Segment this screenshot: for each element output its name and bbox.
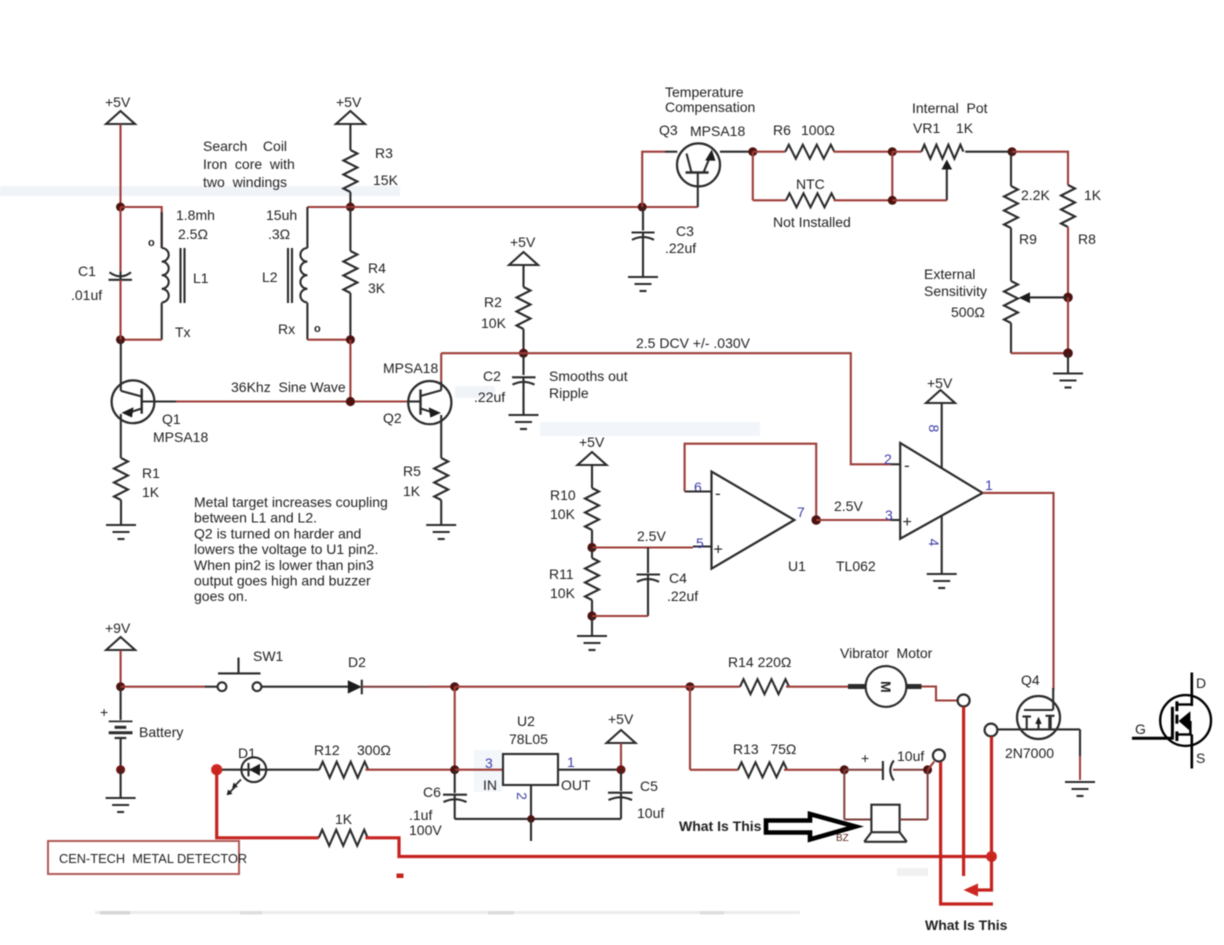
wire pin2 stub below bbox=[530, 819, 532, 841]
svg-text:+: + bbox=[714, 542, 723, 559]
svg-text:C4: C4 bbox=[669, 570, 687, 586]
svg-text:output goes high and buzzer: output goes high and buzzer bbox=[194, 573, 371, 589]
svg-text:100V: 100V bbox=[409, 822, 442, 838]
svg-text:15K: 15K bbox=[373, 172, 399, 188]
svg-text:OUT: OUT bbox=[561, 777, 591, 793]
svg-text:R14 220Ω: R14 220Ω bbox=[728, 654, 791, 670]
svg-text:15uh: 15uh bbox=[266, 207, 297, 223]
power +5V symbol (U2 out) bbox=[607, 711, 636, 770]
wire gate connector to red bus node bbox=[990, 737, 993, 857]
wire Q2 collector up to 2.5V rail bbox=[440, 353, 442, 390]
ground below R5 bbox=[426, 525, 456, 539]
wire Q2 emitter to R5 bbox=[440, 415, 442, 458]
svg-text:+5V: +5V bbox=[510, 234, 536, 250]
power +5V symbol (R3) bbox=[336, 94, 365, 124]
svg-text:S: S bbox=[1196, 750, 1205, 766]
wire feedback loop U1a bbox=[685, 444, 817, 520]
wire SW1 to D2 bbox=[262, 686, 349, 688]
svg-text:TL062: TL062 bbox=[836, 558, 876, 574]
wire node C to L2 top bbox=[307, 206, 350, 208]
node AA (bus corner, bright red) bbox=[986, 851, 997, 862]
svg-text:D2: D2 bbox=[348, 654, 366, 670]
node O (R11 bottom / C4 bottom) bbox=[587, 611, 596, 620]
svg-text:Battery: Battery bbox=[139, 724, 183, 740]
svg-text:36Khz Sine Wave: 36Khz Sine Wave bbox=[231, 379, 346, 395]
ground below U1b pin4 bbox=[927, 574, 957, 588]
svg-text:SW1: SW1 bbox=[253, 648, 284, 664]
svg-text:2.5Ω: 2.5Ω bbox=[178, 226, 208, 242]
transistor Q2 MPSA18 bbox=[383, 360, 451, 426]
svg-text:2.5 DCV +/- .030V: 2.5 DCV +/- .030V bbox=[636, 335, 751, 351]
svg-text:R11: R11 bbox=[549, 566, 574, 582]
node K (VR1 right / R9 top) bbox=[1008, 147, 1017, 156]
svg-text:100Ω: 100Ω bbox=[801, 122, 835, 138]
svg-text:Temperature: Temperature bbox=[665, 84, 744, 100]
svg-text:Compensation: Compensation bbox=[665, 99, 755, 115]
wire motor to connector circle bbox=[922, 687, 958, 701]
svg-text:U1: U1 bbox=[788, 558, 806, 574]
node Y (R13 / buzzer / cap) bbox=[840, 765, 849, 774]
svg-text:2N7000: 2N7000 bbox=[1005, 745, 1054, 761]
svg-text:3: 3 bbox=[885, 507, 893, 523]
core lines of L2 bbox=[288, 248, 292, 303]
svg-text:Q2: Q2 bbox=[383, 410, 402, 426]
svg-text:R6: R6 bbox=[773, 122, 791, 138]
note: metal target text block bbox=[194, 494, 388, 604]
svg-text:D1: D1 bbox=[238, 745, 256, 761]
ground below C2 bbox=[509, 415, 539, 429]
svg-text:lowers the voltage to U1 pin2.: lowers the voltage to U1 pin2. bbox=[194, 541, 378, 557]
svg-text:.22uf: .22uf bbox=[665, 240, 696, 256]
switch SW1 bbox=[121, 648, 284, 691]
wire pin4 to ground bbox=[941, 516, 943, 573]
node U (R12 / C6 / U2 in) bbox=[450, 765, 459, 774]
svg-text:+: + bbox=[903, 514, 912, 531]
wire pin2 lead bbox=[891, 463, 900, 465]
svg-text:L2: L2 bbox=[262, 269, 278, 285]
svg-text:1.8mh: 1.8mh bbox=[176, 207, 215, 223]
svg-text:between L1 and L2.: between L1 and L2. bbox=[194, 510, 317, 526]
wire node O to gnd bbox=[591, 616, 593, 635]
wire C6-U2pin2-C5 bottom rail bbox=[455, 818, 621, 820]
wire 2.5V DCV rail bbox=[441, 353, 891, 464]
svg-text:M: M bbox=[878, 681, 894, 693]
wire U1a out to pin3 bbox=[816, 519, 891, 521]
core lines of L1 bbox=[181, 248, 185, 303]
wire D2 to node S bbox=[362, 686, 430, 688]
capacitor C3 .22uf bbox=[632, 207, 697, 276]
wire +5V to node A bbox=[119, 124, 121, 207]
ground below battery bbox=[106, 798, 136, 812]
svg-text:Search Coil: Search Coil bbox=[203, 138, 287, 154]
node Z (cap right) bbox=[923, 765, 932, 774]
connector circle (10uf) bbox=[928, 750, 945, 770]
svg-text:-: - bbox=[715, 484, 721, 503]
capacitor 10uf (buzzer) bbox=[844, 748, 927, 781]
resistor R10 10K bbox=[550, 465, 599, 548]
note: search coil text bbox=[203, 138, 295, 190]
wire 1K to bottom red bus bbox=[365, 838, 991, 857]
resistor R1 1K bbox=[114, 458, 160, 524]
wire battery to gnd bbox=[120, 770, 122, 797]
capacitor C2 .22uf bbox=[474, 353, 536, 414]
svg-text:+9V: +9V bbox=[105, 620, 131, 636]
node H (Q3 right / R6 left) bbox=[748, 147, 757, 156]
svg-text:U2: U2 bbox=[517, 713, 535, 729]
svg-text:10uf: 10uf bbox=[897, 748, 924, 764]
power +5V symbol (R2) bbox=[509, 234, 538, 265]
resistor R2 10K bbox=[481, 265, 531, 353]
node Q (battery + / switch) bbox=[116, 682, 125, 691]
transistor Q1 MPSA18 bbox=[112, 380, 209, 458]
node V (U2 out / C5) bbox=[617, 765, 626, 774]
svg-text:2.5V: 2.5V bbox=[637, 528, 666, 544]
resistor 1K (bottom) bbox=[319, 811, 368, 846]
node W (pin2 / bottom rail) bbox=[527, 815, 535, 823]
wire +5V to R3 bbox=[349, 124, 351, 150]
svg-text:C2: C2 bbox=[483, 368, 501, 384]
node S (D2 / U2 branch) bbox=[450, 682, 459, 691]
svg-text:3: 3 bbox=[485, 755, 493, 771]
svg-text:R12: R12 bbox=[314, 742, 340, 758]
svg-text:Vibrator Motor: Vibrator Motor bbox=[840, 645, 933, 661]
svg-text:When pin2 is lower than pin3: When pin2 is lower than pin3 bbox=[194, 557, 374, 573]
wire node B down to Q1 collector bbox=[120, 340, 122, 391]
svg-text:Metal target increases couplin: Metal target increases coupling bbox=[194, 494, 388, 510]
op-amp U1b bbox=[884, 425, 993, 547]
svg-text:.22uf: .22uf bbox=[474, 389, 505, 405]
svg-text:C5: C5 bbox=[640, 778, 658, 794]
svg-text:Internal Pot: Internal Pot bbox=[912, 100, 988, 116]
wire node A to L1 top bbox=[121, 207, 162, 248]
vibrator motor bbox=[840, 645, 933, 707]
wire mystery line from motor connector down bbox=[962, 707, 965, 876]
power +5V symbol (left) bbox=[105, 94, 135, 124]
node I (R6 right / VR1 left) bbox=[888, 147, 897, 156]
resistor R3 15K bbox=[343, 145, 398, 207]
resistor R13 75ohm bbox=[690, 687, 844, 778]
svg-text:CEN-TECH METAL DETECTOR: CEN-TECH METAL DETECTOR bbox=[59, 851, 247, 866]
wire L2 bottom to node D bbox=[306, 303, 308, 340]
svg-text:4: 4 bbox=[926, 539, 942, 547]
node X (R14/R13 branch) bbox=[686, 682, 695, 691]
mosfet reference symbol (right margin) bbox=[1132, 673, 1211, 769]
inductor L2 bbox=[262, 248, 307, 302]
svg-text:C1: C1 bbox=[78, 263, 96, 279]
node J (NTC right / wiper junction) bbox=[888, 196, 897, 205]
svg-text:Sensitivity: Sensitivity bbox=[924, 283, 987, 299]
power +9V symbol bbox=[105, 620, 135, 650]
svg-text:7: 7 bbox=[797, 504, 805, 520]
wire D1 dot to 1K resistor (red bus) bbox=[217, 770, 319, 838]
wire U1b output to Q4 drain bbox=[983, 493, 1054, 690]
op-amp U1a bbox=[694, 472, 805, 569]
svg-text:1: 1 bbox=[985, 477, 993, 493]
svg-text:10uf: 10uf bbox=[637, 805, 664, 821]
regulator U2 78L05 bbox=[483, 713, 591, 800]
svg-text:R2: R2 bbox=[484, 294, 502, 310]
buzzer BZ bbox=[836, 770, 928, 844]
transistor Q4 2N7000 bbox=[998, 672, 1080, 761]
capacitor C5 10uf bbox=[608, 770, 664, 821]
node F (C3 junction) bbox=[638, 203, 647, 212]
wire mystery line from 10uf connector bbox=[941, 762, 993, 904]
block arrow pointing at buzzer bbox=[766, 814, 856, 840]
note: temperature compensation bbox=[665, 84, 755, 115]
potentiometer VR1 1K internal pot bbox=[892, 100, 1012, 200]
wire +9V to node Q bbox=[120, 650, 122, 687]
svg-text:.01uf: .01uf bbox=[71, 287, 102, 303]
svg-text:+5V: +5V bbox=[579, 434, 605, 450]
battery bbox=[100, 687, 183, 770]
potentiometer external sensitivity 500ohm bbox=[924, 266, 1068, 353]
capacitor C4 .22uf bbox=[592, 548, 698, 617]
svg-text:R8: R8 bbox=[1078, 231, 1096, 247]
svg-text:1K: 1K bbox=[956, 120, 974, 136]
svg-text:o: o bbox=[314, 323, 321, 335]
svg-text:o: o bbox=[148, 237, 155, 249]
wire Q4 source to ground bbox=[1079, 729, 1081, 780]
wire U2 OUT to node V bbox=[558, 769, 621, 771]
wire node U to U2 IN bbox=[455, 769, 503, 771]
svg-text:2: 2 bbox=[514, 792, 530, 800]
svg-text:Rx: Rx bbox=[278, 321, 295, 337]
power +5V symbol (U1b pin8) bbox=[926, 375, 955, 468]
svg-text:+5V: +5V bbox=[105, 94, 131, 110]
svg-text:R1: R1 bbox=[142, 465, 160, 481]
svg-text:Q4: Q4 bbox=[1021, 672, 1040, 688]
svg-text:Q2 is turned on harder and: Q2 is turned on harder and bbox=[194, 525, 361, 541]
svg-text:.22uf: .22uf bbox=[667, 588, 698, 604]
svg-text:C6: C6 bbox=[423, 784, 441, 800]
svg-text:C3: C3 bbox=[676, 223, 694, 239]
wire 36KHz sine wave (Q1 base to Q2 base) bbox=[176, 400, 408, 402]
inductor L1 bbox=[162, 248, 209, 302]
LED D1 bbox=[222, 745, 266, 795]
node L (R8 / ext pot wiper) bbox=[1063, 293, 1073, 303]
stray red mark bbox=[397, 874, 404, 879]
svg-text:IN: IN bbox=[483, 777, 497, 793]
wire node F up to Q3 left lead bbox=[642, 152, 665, 207]
svg-text:78L05: 78L05 bbox=[509, 731, 548, 747]
wire node D down to 36KHz line bbox=[349, 340, 351, 402]
resistor NTC (not installed) bbox=[753, 152, 893, 230]
node N (R10/R11 divider) bbox=[587, 543, 596, 552]
svg-text:L1: L1 bbox=[193, 270, 209, 286]
svg-text:External: External bbox=[924, 266, 975, 282]
svg-text:Tx: Tx bbox=[175, 324, 191, 340]
connector circle (Q4 gate) bbox=[985, 724, 998, 737]
resistor R12 300ohm bbox=[266, 742, 454, 778]
wire U2 pin2 stub bbox=[530, 785, 532, 819]
svg-text:+5V: +5V bbox=[927, 375, 953, 391]
transistor Q3 MPSA18 bbox=[659, 122, 753, 207]
resistor R14 220ohm bbox=[455, 654, 848, 694]
node C (R3/L2/R4 junction) bbox=[346, 203, 355, 212]
capacitor C6 .1uf 100V bbox=[409, 770, 467, 838]
svg-text:Ripple: Ripple bbox=[549, 385, 589, 401]
svg-text:MPSA18: MPSA18 bbox=[383, 360, 438, 376]
wire node K to R8 top bbox=[1012, 152, 1068, 185]
svg-text:R9: R9 bbox=[1019, 231, 1037, 247]
ground below C3 bbox=[628, 277, 658, 291]
resistor R4 3K bbox=[343, 207, 386, 340]
node P (U1a output) bbox=[811, 515, 821, 525]
ground below R1 bbox=[106, 525, 136, 539]
svg-text:2: 2 bbox=[884, 451, 892, 467]
svg-text:2.2K: 2.2K bbox=[1021, 187, 1050, 203]
svg-text:.1uf: .1uf bbox=[409, 807, 432, 823]
svg-text:.3Ω: .3Ω bbox=[268, 226, 290, 242]
wire stub with arrow below bus bbox=[964, 857, 992, 897]
svg-text:+5V: +5V bbox=[336, 94, 362, 110]
resistor R9 2.2K bbox=[1004, 152, 1050, 281]
resistor R11 10K bbox=[549, 548, 599, 617]
svg-text:1: 1 bbox=[567, 754, 575, 770]
svg-text:What Is This: What Is This bbox=[925, 917, 1008, 933]
node R (battery - ) bbox=[116, 765, 125, 774]
svg-text:3K: 3K bbox=[368, 280, 386, 296]
svg-text:VR1: VR1 bbox=[913, 120, 940, 136]
svg-text:What Is This: What Is This bbox=[679, 818, 762, 834]
wire L1 bottom to node B bbox=[161, 303, 163, 340]
resistor R8 1K bbox=[1061, 185, 1102, 297]
svg-text:1K: 1K bbox=[142, 484, 160, 500]
power +5V symbol (R10) bbox=[578, 434, 607, 465]
svg-text:Not Installed: Not Installed bbox=[773, 214, 851, 230]
capacitor C1 bbox=[71, 207, 132, 340]
svg-text:R5: R5 bbox=[403, 463, 421, 479]
svg-text:300Ω: 300Ω bbox=[357, 742, 391, 758]
svg-text:R10: R10 bbox=[550, 487, 576, 503]
svg-text:NTC: NTC bbox=[796, 176, 825, 192]
svg-text:1K: 1K bbox=[403, 483, 421, 499]
node M (R8 bottom / gnd) bbox=[1063, 348, 1073, 358]
note: smooths out ripple bbox=[549, 368, 628, 401]
svg-text:-: - bbox=[904, 456, 910, 475]
svg-text:Q3: Q3 bbox=[659, 122, 678, 138]
diode D2 bbox=[348, 654, 366, 694]
wire node S down to R12 rail bbox=[454, 687, 456, 770]
node A (top of C1/L1) bbox=[116, 203, 125, 212]
svg-text:goes on.: goes on. bbox=[194, 588, 248, 604]
resistor R6 100ohm bbox=[753, 122, 893, 159]
node T (D1 anode big red dot) bbox=[211, 764, 222, 775]
svg-text:R4: R4 bbox=[368, 260, 386, 276]
svg-text:8: 8 bbox=[926, 425, 942, 433]
ground below R8 bbox=[1053, 353, 1083, 387]
connector circle (motor) bbox=[958, 695, 970, 707]
wire node C to Q3 base rail bbox=[350, 206, 697, 208]
svg-text:R3: R3 bbox=[375, 145, 393, 161]
wire pin6 lead bbox=[685, 490, 712, 492]
ground below R11 bbox=[577, 636, 607, 650]
svg-text:10K: 10K bbox=[481, 315, 507, 331]
resistor R5 1K bbox=[403, 458, 448, 524]
node E on 36KHz wire bbox=[346, 397, 355, 406]
wire divider to pin5 bbox=[592, 546, 693, 548]
svg-text:MPSA18: MPSA18 bbox=[153, 429, 208, 445]
svg-text:Smooths out: Smooths out bbox=[549, 368, 628, 384]
svg-text:R13 75Ω: R13 75Ω bbox=[733, 741, 796, 757]
svg-text:Iron core with: Iron core with bbox=[203, 156, 295, 172]
node B (bottom of C1/L1) bbox=[116, 335, 125, 344]
svg-text:Q1: Q1 bbox=[162, 411, 181, 427]
svg-text:1K: 1K bbox=[335, 811, 353, 827]
node G (R2/C2 on 2.5V rail) bbox=[519, 349, 528, 358]
ground below Q4 bbox=[1065, 782, 1095, 796]
svg-text:+5V: +5V bbox=[608, 711, 634, 727]
svg-text:2.5V: 2.5V bbox=[834, 498, 863, 514]
svg-text:5: 5 bbox=[696, 535, 704, 551]
svg-text:MPSA18: MPSA18 bbox=[690, 123, 745, 139]
svg-text:G: G bbox=[1135, 721, 1146, 737]
svg-text:10K: 10K bbox=[550, 506, 576, 522]
svg-text:500Ω: 500Ω bbox=[951, 304, 985, 320]
svg-text:10K: 10K bbox=[550, 585, 576, 601]
svg-text:6: 6 bbox=[694, 479, 702, 495]
node D (R4/L2 bottom junction) bbox=[346, 335, 355, 344]
svg-text:D: D bbox=[1196, 675, 1206, 691]
svg-text:BZ: BZ bbox=[836, 833, 849, 844]
svg-text:two windings: two windings bbox=[203, 174, 287, 190]
svg-text:1K: 1K bbox=[1084, 187, 1102, 203]
box CEN-TECH METAL DETECTOR bbox=[48, 841, 247, 874]
svg-text:+: + bbox=[861, 750, 869, 766]
svg-text:+: + bbox=[100, 704, 108, 720]
